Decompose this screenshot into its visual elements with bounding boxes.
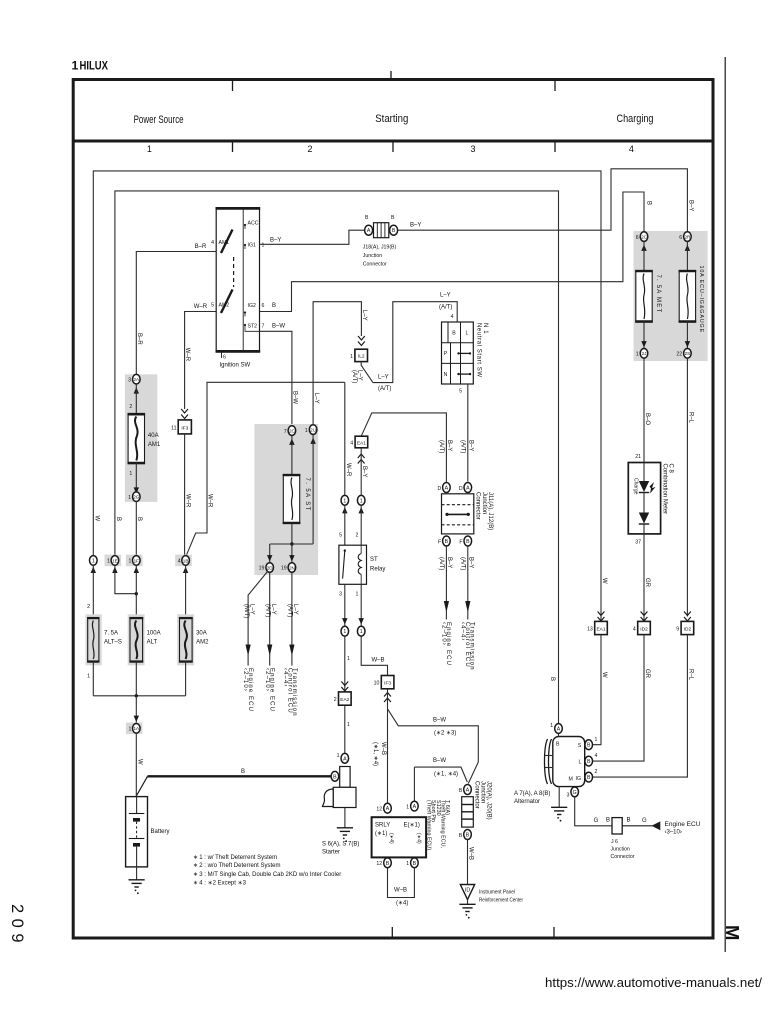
connector 1 above relay contact xyxy=(341,495,349,505)
svg-text:L–Y: L–Y xyxy=(313,393,319,404)
label B at charging drop xyxy=(646,201,652,205)
chevrons into IF3 xyxy=(181,409,188,419)
left border xyxy=(72,78,75,940)
wire 2G to 1F label B xyxy=(135,502,137,556)
pin 1 fuse ALT-S xyxy=(87,674,90,680)
svg-text:1B: 1B xyxy=(183,558,189,563)
ignition switch I6 box xyxy=(216,208,261,353)
connector B E pin 1 xyxy=(406,858,418,868)
label B-W vertical xyxy=(292,391,298,404)
column number 2 xyxy=(307,144,312,154)
svg-text:1: 1 xyxy=(356,592,359,598)
svg-text:Alternator: Alternator xyxy=(514,799,540,805)
arrow into 2G xyxy=(134,487,139,493)
arrows below relay top connectors xyxy=(342,507,364,513)
svg-text:1: 1 xyxy=(107,559,110,565)
svg-text:6: 6 xyxy=(636,235,639,241)
fusible link 40A AM1 xyxy=(128,414,146,464)
bus below fuses xyxy=(93,694,185,697)
svg-text:B: B xyxy=(556,742,560,748)
arrows to ECUs xyxy=(246,645,295,666)
label W-B *4 xyxy=(394,888,408,907)
tick above top line xyxy=(390,71,392,79)
wire fuse ST to bus xyxy=(291,523,293,544)
label Instrument Panel Reinforcement Center xyxy=(479,890,523,904)
svg-text:10: 10 xyxy=(374,681,380,687)
svg-text:4: 4 xyxy=(629,144,634,154)
relay pin 2 xyxy=(356,533,359,539)
label J6 Junction Connector xyxy=(611,839,635,860)
svg-text:W–B: W–B xyxy=(468,847,474,860)
fuse 7.5A ST xyxy=(283,475,301,524)
svg-text:1: 1 xyxy=(87,674,90,680)
label B-Y AT right lower xyxy=(460,557,474,570)
svg-text:2J: 2J xyxy=(642,351,647,356)
label W-B xyxy=(372,658,385,664)
svg-text:3: 3 xyxy=(567,793,570,799)
label L-Y above IL2 xyxy=(361,310,367,321)
svg-text:5: 5 xyxy=(339,533,342,539)
ignition terminal labels xyxy=(219,221,259,330)
svg-text:B: B xyxy=(646,201,652,205)
label W on EA1 riser xyxy=(601,578,607,584)
svg-text:1A: 1A xyxy=(133,726,140,731)
label Transmission Control ECU xyxy=(282,668,297,717)
svg-text:Charge: Charge xyxy=(632,478,638,495)
svg-text:B: B xyxy=(386,861,390,867)
label Battery xyxy=(151,829,170,835)
label W-R horizontal xyxy=(194,304,208,310)
svg-text:1: 1 xyxy=(129,471,132,477)
label L-Y AT right xyxy=(287,604,299,617)
svg-text:F: F xyxy=(459,539,462,545)
svg-text:EA2: EA2 xyxy=(340,697,349,703)
connector EA2 pin 2 xyxy=(334,692,351,705)
svg-text:IF3: IF3 xyxy=(384,680,391,686)
label ST Relay xyxy=(370,557,385,573)
bottom border xyxy=(72,937,714,940)
connector IF3 pin 10 xyxy=(374,676,394,689)
wire L-Y AT from 2D xyxy=(269,572,271,651)
svg-text:B: B xyxy=(459,788,463,794)
svg-text:6: 6 xyxy=(679,235,682,241)
arrow to engine ECU xyxy=(652,821,661,830)
svg-text:G: G xyxy=(642,818,647,824)
chevrons into ID2 left xyxy=(641,612,648,622)
wire L-Y MT from 2D xyxy=(248,572,267,652)
svg-text:W: W xyxy=(93,516,99,522)
svg-text:37: 37 xyxy=(635,540,641,546)
svg-text:B: B xyxy=(272,303,276,309)
label B-R vertical xyxy=(136,333,142,345)
svg-text:1: 1 xyxy=(636,352,639,358)
wire R-L 2S down xyxy=(686,358,688,616)
svg-text:Relay: Relay xyxy=(370,567,385,573)
svg-text:1: 1 xyxy=(92,558,95,564)
label W above battery xyxy=(137,759,143,765)
svg-text:1F: 1F xyxy=(134,558,140,563)
pin 4 of N1 xyxy=(451,314,454,320)
svg-text:∗ 3 : M/T Single Cab, Double: ∗ 3 : M/T Single Cab, Double Cab 2KD w/o… xyxy=(193,872,341,878)
svg-text:2A: 2A xyxy=(133,377,140,382)
svg-text:1: 1 xyxy=(347,722,350,728)
arrows into 2C 2U xyxy=(289,438,316,445)
svg-text:B: B xyxy=(587,759,591,765)
svg-text:J 6: J 6 xyxy=(611,839,618,845)
svg-text:2C: 2C xyxy=(289,429,296,434)
svg-text:W–R: W–R xyxy=(184,348,190,362)
svg-text:10A ECU–IG&GAUGE: 10A ECU–IG&GAUGE xyxy=(698,266,704,334)
svg-text:Junction: Junction xyxy=(363,253,382,259)
label 40A AM1 xyxy=(148,433,161,448)
svg-text:4: 4 xyxy=(595,753,598,759)
svg-text:1: 1 xyxy=(347,656,350,662)
arrow into 2A xyxy=(134,387,139,393)
svg-text:B–Y: B–Y xyxy=(270,238,281,244)
label Transmission Control ECU under J12 xyxy=(460,622,475,671)
label B-Y at charging drop xyxy=(688,200,694,211)
svg-text:1: 1 xyxy=(343,629,346,635)
svg-text:B: B xyxy=(466,833,470,839)
svg-text:2: 2 xyxy=(334,697,337,703)
label B on 1E riser xyxy=(115,517,121,521)
svg-text:3: 3 xyxy=(470,144,475,154)
svg-text:S: S xyxy=(578,743,582,749)
wires bus to 2D 2N xyxy=(270,544,292,563)
connector A SRLY pin 12 xyxy=(376,803,391,813)
svg-text:B: B xyxy=(627,818,631,824)
svg-text:R–L: R–L xyxy=(688,412,694,424)
svg-text:IL2: IL2 xyxy=(358,354,365,360)
svg-text:GR: GR xyxy=(644,578,650,588)
svg-text:Instrument Panel: Instrument Panel xyxy=(479,890,515,896)
wire 2C to fuse ST xyxy=(291,435,293,474)
wire EA1 to relay coil connector xyxy=(360,448,362,496)
svg-text:Junction: Junction xyxy=(611,847,630,853)
svg-text:B: B xyxy=(365,215,369,221)
svg-text:4: 4 xyxy=(350,441,353,447)
pin 21 of meter xyxy=(635,454,641,460)
wire B riser 1E and top loop to alternator xyxy=(115,191,559,724)
label Engine ECU mid xyxy=(264,668,275,712)
svg-text:1: 1 xyxy=(406,804,409,810)
chevrons into EA2 xyxy=(341,682,348,692)
svg-text:R–L: R–L xyxy=(688,669,694,681)
svg-text:ALT: ALT xyxy=(147,640,158,646)
wire 1 to fuse ALT-S xyxy=(92,565,94,617)
connector 1A xyxy=(126,723,143,735)
svg-text:12: 12 xyxy=(376,807,382,813)
wire B-Y EA1 to J11 branch xyxy=(361,413,446,483)
svg-text:W–B: W–B xyxy=(372,658,385,664)
svg-text:B–W: B–W xyxy=(292,391,298,404)
fuse 10A ECU-IG GAUGE xyxy=(679,271,697,323)
svg-text:W–R: W–R xyxy=(185,494,191,508)
wire B-Y junction connector to charging fuse 2R xyxy=(398,169,688,232)
battery diagonal tap xyxy=(137,776,148,795)
wires below J11 J12 xyxy=(446,546,467,610)
svg-text:2G: 2G xyxy=(133,495,140,500)
svg-text:GR: GR xyxy=(644,669,650,679)
thick wire B battery to starter xyxy=(148,775,331,777)
svg-text:Power Source: Power Source xyxy=(134,114,184,126)
svg-text:ST2: ST2 xyxy=(248,324,258,330)
ignition contact dots xyxy=(244,224,260,331)
svg-text:22: 22 xyxy=(676,352,682,358)
svg-text:5: 5 xyxy=(459,389,462,395)
wire L-Y AT from 2N xyxy=(291,572,293,651)
wires relay to bottom connectors xyxy=(345,584,361,626)
svg-text:13: 13 xyxy=(587,627,593,633)
svg-text:A: A xyxy=(343,756,347,762)
right border of diagram xyxy=(712,78,715,940)
connector 2G xyxy=(128,492,140,502)
connector 1 above relay coil xyxy=(357,495,365,505)
connector B SRLY pin 12 xyxy=(376,858,391,868)
pin 37 of meter xyxy=(635,540,641,546)
connector 1B xyxy=(175,555,192,567)
alternator ground xyxy=(551,787,567,822)
alternator pin S xyxy=(585,737,598,750)
battery ground xyxy=(129,867,145,894)
svg-text:B: B xyxy=(452,331,456,337)
svg-text:30A: 30A xyxy=(196,631,207,637)
chevrons into ID2 right xyxy=(684,612,691,622)
svg-text:https://www.automotive-manuals: https://www.automotive-manuals.net/ xyxy=(545,975,762,990)
page letter M xyxy=(722,925,743,940)
arrows to ECUs from J11 xyxy=(444,601,471,620)
wire 2A to fuse xyxy=(135,384,137,414)
svg-text:N: N xyxy=(444,372,448,378)
svg-text:1: 1 xyxy=(72,59,79,73)
svg-text:1: 1 xyxy=(360,629,363,635)
svg-text:ST: ST xyxy=(370,557,378,563)
label B-W at ST2 xyxy=(272,324,285,330)
label Charge xyxy=(632,478,638,495)
label J18(A) J19(B) Junction Connector xyxy=(363,245,397,268)
ticks above bottom border xyxy=(392,927,554,937)
svg-text:B: B xyxy=(136,517,142,521)
label L-Y MT xyxy=(243,604,255,618)
label B at IG2 xyxy=(272,303,276,309)
label I6 Ignition SW xyxy=(220,352,251,369)
svg-text:7. 5A: 7. 5A xyxy=(104,631,118,637)
page edge line xyxy=(724,57,726,952)
header band top line xyxy=(72,78,714,81)
wire fuse outputs to bus xyxy=(93,662,185,696)
ticks below second line xyxy=(233,143,556,153)
svg-text:1: 1 xyxy=(550,723,553,729)
connector A E pin 1 xyxy=(406,801,418,811)
svg-text:B: B xyxy=(466,539,470,545)
label L-Y AT diagonal xyxy=(378,375,391,393)
svg-text:M: M xyxy=(569,777,573,783)
label W-R vertical upper xyxy=(184,348,190,362)
connector 2C charging xyxy=(636,232,648,242)
arrows into 2D 2N xyxy=(267,555,295,561)
svg-text:Charging: Charging xyxy=(617,113,654,125)
svg-text:IF3: IF3 xyxy=(181,425,188,431)
svg-text:∗ 4 : ∗2 Except ∗3: ∗ 4 : ∗2 Except ∗3 xyxy=(193,881,247,887)
svg-text:EA1: EA1 xyxy=(596,626,605,632)
connector 2A xyxy=(128,374,140,384)
wire B-Y from IG1 to junction connector xyxy=(260,230,365,244)
label C8 Combination Meter xyxy=(661,464,673,515)
svg-text:B–W: B–W xyxy=(272,324,285,330)
connector A pin 1 at alternator xyxy=(550,723,562,733)
svg-text:2N: 2N xyxy=(289,565,295,570)
svg-text:B: B xyxy=(115,517,121,521)
svg-text:A: A xyxy=(445,486,449,492)
svg-text:1: 1 xyxy=(343,498,346,504)
svg-text:1: 1 xyxy=(360,498,363,504)
svg-text:(∗1): (∗1) xyxy=(375,831,387,837)
svg-text:B: B xyxy=(459,833,463,839)
ST relay box xyxy=(339,545,367,584)
svg-text:7: 7 xyxy=(262,324,265,330)
label L-Y on 2U riser xyxy=(313,393,319,404)
wire W-R branch to relay and 1B jog xyxy=(186,382,345,555)
connector ID2 pin 9 xyxy=(676,621,693,634)
svg-text:F: F xyxy=(438,539,441,545)
wire B-W *2 *3 branch to J20 xyxy=(388,709,479,784)
url text xyxy=(545,975,762,990)
svg-text:7. 5A ST: 7. 5A ST xyxy=(304,478,310,512)
wire L-Y IL2 to neutral start switch xyxy=(361,302,457,383)
labels B above junction connector xyxy=(365,215,395,221)
relay pin 3 xyxy=(339,592,342,598)
svg-text:L: L xyxy=(465,331,468,337)
svg-text:G: G xyxy=(594,818,599,824)
pin 1 of fuse AM1 xyxy=(129,471,132,477)
wire 1F to fuse ALT xyxy=(135,565,137,617)
alternator pin G xyxy=(567,787,579,799)
wire IF3 to 1B label W-R xyxy=(184,434,186,556)
label 30A AM2 xyxy=(196,631,209,646)
wires fuses to 2J 2S xyxy=(644,322,687,349)
svg-text:Battery: Battery xyxy=(151,829,170,835)
labels B G right of J6 xyxy=(627,818,648,825)
header band bottom line xyxy=(72,140,714,143)
chevrons into IL2 xyxy=(358,336,365,346)
labels G B left of J6 xyxy=(594,818,610,825)
svg-text:W: W xyxy=(137,759,143,765)
svg-text:J18(A), J19(B): J18(A), J19(B) xyxy=(363,245,397,251)
label R-L lower xyxy=(688,669,694,681)
wire fuse to 2G xyxy=(135,463,137,492)
junction connector J18(A) J19(B) xyxy=(365,223,398,238)
connector ID2 pin 4 xyxy=(633,621,650,634)
svg-text:M: M xyxy=(722,925,743,940)
svg-text:G: G xyxy=(573,790,577,796)
svg-text:1: 1 xyxy=(147,144,152,154)
wire J20 to instrument panel ground xyxy=(467,840,469,885)
svg-text:IG1: IG1 xyxy=(248,243,256,249)
svg-text:Starter: Starter xyxy=(322,850,340,856)
alternator body xyxy=(553,733,585,786)
label 7.5A MET xyxy=(655,275,661,314)
neutral start switch N1 xyxy=(442,322,474,384)
wire IF3 to theft ECU SRLY xyxy=(387,689,389,804)
svg-text:∗ 2 : w/o Theft Deterrent Syst: ∗ 2 : w/o Theft Deterrent System xyxy=(193,863,280,869)
connector 2R charging xyxy=(679,232,691,242)
svg-text:B: B xyxy=(587,775,591,781)
svg-text:ALT–S: ALT–S xyxy=(104,640,122,646)
combination meter box xyxy=(628,463,660,534)
svg-text:B–Y: B–Y xyxy=(410,223,421,229)
svg-text:Ignition SW: Ignition SW xyxy=(220,363,251,369)
svg-text:B: B xyxy=(413,861,417,867)
svg-text:W–R: W–R xyxy=(345,463,351,477)
svg-text:(A/T): (A/T) xyxy=(439,305,452,311)
label B-Y after junction connector xyxy=(410,223,421,229)
section label Charging xyxy=(617,113,654,125)
wire W EA1 to alternator S xyxy=(593,635,601,745)
connector 1F xyxy=(126,555,143,567)
gray block charging fuses xyxy=(634,231,708,361)
label W lower xyxy=(601,672,607,678)
svg-text:(∗4): (∗4) xyxy=(388,833,394,844)
connector IF3 pin 11 xyxy=(171,420,191,434)
svg-text:2: 2 xyxy=(356,533,359,539)
label B-Y at IG1 xyxy=(270,238,281,244)
wire B-Y AT from N1 pin5 xyxy=(467,384,469,481)
wire 2C to fuse MET xyxy=(643,241,645,270)
svg-text:A: A xyxy=(466,486,470,492)
relay pin 1 xyxy=(356,592,359,598)
svg-text:(∗4): (∗4) xyxy=(416,833,422,844)
svg-text:L: L xyxy=(579,760,582,766)
svg-text:2: 2 xyxy=(595,769,598,775)
label J11(A) J12(B) Junction Connector xyxy=(475,492,493,530)
arrows below bottom connectors xyxy=(91,567,189,573)
wire 2R to fuse ECU-IG xyxy=(686,241,688,270)
svg-text:∗ 1 : w/ Theft Deterrent Syste: ∗ 1 : w/ Theft Deterrent System xyxy=(193,855,277,861)
wire B-R from ignition AM1 to connector 2A xyxy=(136,252,216,375)
label L-Y AT at N1 xyxy=(439,293,452,311)
svg-text:4: 4 xyxy=(633,627,636,633)
svg-text:A: A xyxy=(367,228,371,234)
junction connector J11 J12 xyxy=(437,483,473,547)
svg-text:2D: 2D xyxy=(267,565,274,570)
arrows into 2C 2R xyxy=(641,245,690,251)
connector IL2 pin 1 xyxy=(350,349,367,361)
svg-text:19: 19 xyxy=(259,566,265,572)
label W-R vertical lower left xyxy=(185,494,191,508)
svg-text:Engine ECU: Engine ECU xyxy=(665,822,701,828)
alternator pin L xyxy=(585,753,598,766)
junction connector J6 xyxy=(612,818,622,834)
label Engine ECU 3-10 xyxy=(665,822,701,836)
label B on battery wire xyxy=(241,769,245,775)
fuse 7.5A MET xyxy=(635,271,653,323)
svg-text:‹3–10›: ‹3–10› xyxy=(665,830,682,836)
ignition pin numbers xyxy=(211,240,264,330)
connector 2D xyxy=(259,563,274,573)
svg-text:B: B xyxy=(549,677,555,681)
footnotes xyxy=(193,855,341,887)
fuse 100A ALT xyxy=(128,614,145,665)
label GR upper xyxy=(644,578,650,588)
wires connectors to relay xyxy=(345,505,361,545)
ignition lever AM2 xyxy=(221,290,233,314)
svg-text:4: 4 xyxy=(211,240,214,246)
svg-text:2: 2 xyxy=(307,144,312,154)
label 100A ALT xyxy=(147,631,161,646)
label L-Y vertical between xyxy=(351,370,363,383)
svg-text:ID: ID xyxy=(465,888,470,894)
wire G alternator to J6 xyxy=(575,797,612,826)
